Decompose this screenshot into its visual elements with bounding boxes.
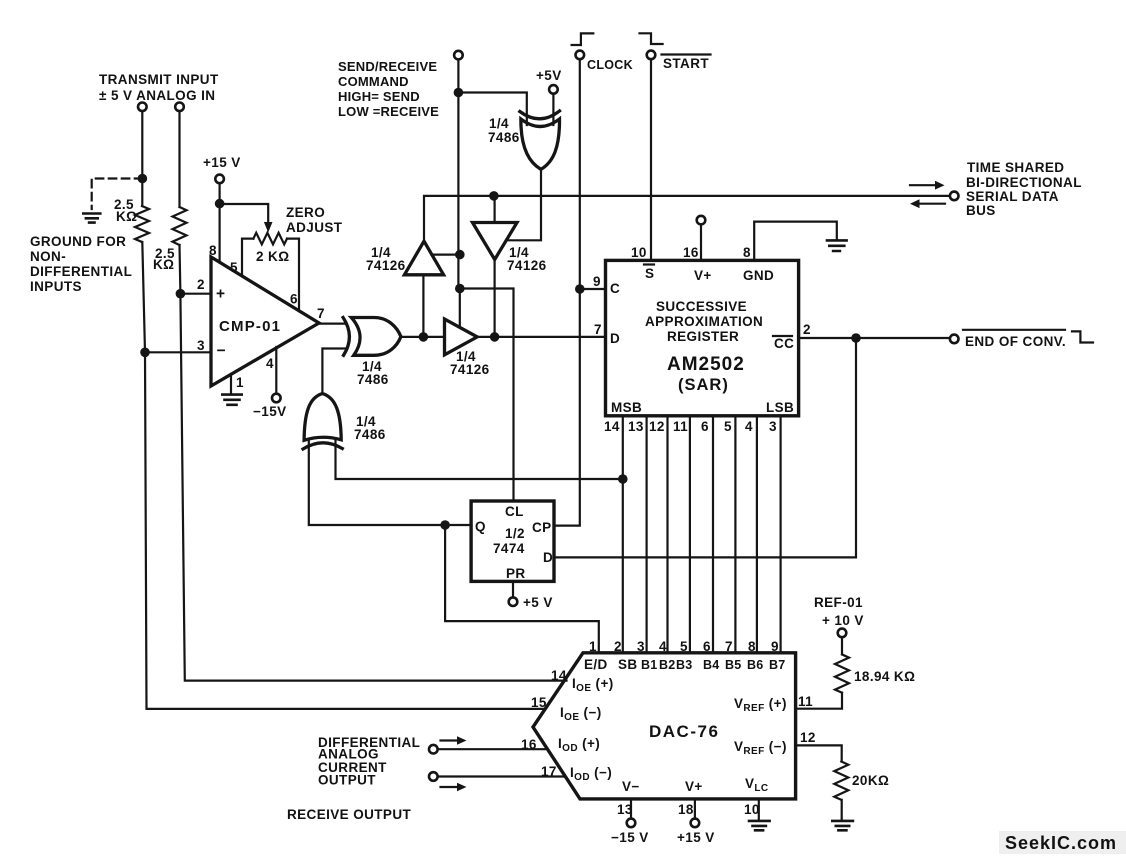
svg-text:GROUND FOR: GROUND FOR — [30, 234, 126, 249]
svg-text:16: 16 — [521, 737, 537, 752]
svg-text:6: 6 — [701, 419, 709, 434]
svg-text:14: 14 — [604, 419, 620, 434]
svg-text:12: 12 — [649, 419, 665, 434]
svg-text:OUTPUT: OUTPUT — [318, 773, 376, 788]
svg-text:−: − — [217, 343, 226, 360]
svg-text:B4: B4 — [703, 658, 719, 672]
svg-text:REF-01: REF-01 — [814, 595, 863, 610]
svg-text:5: 5 — [724, 419, 732, 434]
svg-text:SeekIC.com: SeekIC.com — [1005, 833, 1117, 853]
svg-text:C: C — [610, 281, 620, 296]
svg-text:+5 V: +5 V — [523, 595, 553, 610]
svg-text:7: 7 — [317, 306, 325, 321]
svg-text:18.94 KΩ: 18.94 KΩ — [854, 669, 915, 684]
svg-text:+15 V: +15 V — [203, 155, 241, 170]
svg-text:7486: 7486 — [354, 427, 386, 442]
svg-text:S: S — [645, 266, 654, 281]
svg-text:7486: 7486 — [357, 372, 389, 387]
svg-text:ZERO: ZERO — [286, 205, 325, 220]
svg-text:−15 V: −15 V — [611, 830, 649, 845]
svg-text:−15V: −15V — [253, 404, 287, 419]
svg-text:+: + — [216, 286, 225, 303]
svg-text:SB: SB — [618, 657, 638, 672]
svg-text:B3: B3 — [676, 658, 692, 672]
svg-text:4: 4 — [266, 356, 274, 371]
svg-text:D: D — [543, 550, 553, 565]
svg-text:DIFFERENTIAL: DIFFERENTIAL — [30, 264, 132, 279]
svg-text:BI-DIRECTIONAL: BI-DIRECTIONAL — [966, 175, 1082, 190]
svg-text:13: 13 — [628, 419, 644, 434]
svg-text:NON-: NON- — [30, 249, 66, 264]
svg-text:7474: 7474 — [493, 541, 525, 556]
svg-text:+ 10 V: + 10 V — [822, 613, 864, 628]
svg-text:7: 7 — [594, 322, 602, 337]
svg-text:20KΩ: 20KΩ — [852, 773, 889, 788]
svg-text:2: 2 — [614, 639, 622, 654]
svg-text:B2: B2 — [659, 658, 675, 672]
svg-text:(SAR): (SAR) — [678, 376, 729, 394]
svg-text:16: 16 — [683, 245, 699, 260]
svg-text:9: 9 — [771, 639, 779, 654]
svg-text:TRANSMIT INPUT: TRANSMIT INPUT — [99, 72, 219, 87]
svg-text:GND: GND — [743, 268, 774, 283]
svg-text:18: 18 — [678, 802, 694, 817]
svg-text:ADJUST: ADJUST — [286, 220, 343, 235]
svg-text:DAC-76: DAC-76 — [649, 722, 719, 741]
svg-text:1: 1 — [236, 375, 244, 390]
svg-text:D: D — [610, 331, 620, 346]
svg-text:17: 17 — [541, 764, 557, 779]
svg-text:B5: B5 — [725, 658, 741, 672]
svg-text:12: 12 — [800, 730, 816, 745]
svg-text:CL: CL — [505, 504, 524, 519]
svg-text:LSB: LSB — [766, 400, 794, 415]
svg-text:AM2502: AM2502 — [667, 354, 745, 375]
svg-text:TIME SHARED: TIME SHARED — [967, 160, 1064, 175]
svg-text:Q: Q — [475, 519, 486, 534]
svg-text:E/D: E/D — [584, 657, 608, 672]
svg-text:4: 4 — [659, 639, 667, 654]
svg-text:+5V: +5V — [536, 68, 562, 83]
svg-text:REGISTER: REGISTER — [667, 329, 739, 344]
svg-text:3: 3 — [637, 639, 645, 654]
svg-text:LOW =RECEIVE: LOW =RECEIVE — [338, 104, 439, 119]
svg-text:8: 8 — [209, 243, 217, 258]
svg-text:KΩ: KΩ — [116, 209, 137, 224]
svg-text:APPROXIMATION: APPROXIMATION — [645, 314, 763, 329]
svg-text:CLOCK: CLOCK — [587, 58, 633, 72]
svg-text:1/2: 1/2 — [505, 526, 525, 541]
svg-text:5: 5 — [680, 639, 688, 654]
svg-text:4: 4 — [745, 419, 753, 434]
svg-text:9: 9 — [593, 274, 601, 289]
svg-text:INPUTS: INPUTS — [30, 279, 82, 294]
svg-text:PR: PR — [506, 566, 526, 581]
svg-text:BUS: BUS — [966, 203, 996, 218]
svg-text:+15 V: +15 V — [677, 830, 715, 845]
svg-text:CP: CP — [532, 520, 552, 535]
svg-text:15: 15 — [531, 695, 547, 710]
svg-text:CC: CC — [774, 336, 794, 351]
svg-text:RECEIVE OUTPUT: RECEIVE OUTPUT — [287, 807, 411, 822]
svg-text:SEND/RECEIVE: SEND/RECEIVE — [338, 59, 437, 74]
svg-text:KΩ: KΩ — [153, 257, 174, 272]
svg-text:5: 5 — [230, 260, 238, 275]
svg-text:2 KΩ: 2 KΩ — [256, 249, 289, 264]
svg-text:V−: V− — [622, 779, 640, 794]
svg-text:74126: 74126 — [507, 258, 547, 273]
svg-text:10: 10 — [744, 802, 760, 817]
svg-text:END OF CONV.: END OF CONV. — [965, 334, 1066, 349]
svg-text:SUCCESSIVE: SUCCESSIVE — [656, 299, 747, 314]
svg-text:V+: V+ — [685, 779, 703, 794]
svg-text:HIGH= SEND: HIGH= SEND — [338, 89, 420, 104]
svg-text:7486: 7486 — [488, 130, 520, 145]
svg-text:START: START — [663, 56, 709, 71]
svg-text:1: 1 — [589, 639, 597, 654]
svg-text:74126: 74126 — [450, 362, 490, 377]
svg-text:74126: 74126 — [366, 258, 406, 273]
svg-text:2: 2 — [197, 277, 205, 292]
svg-text:14: 14 — [551, 668, 567, 683]
svg-text:10: 10 — [631, 245, 647, 260]
svg-text:MSB: MSB — [611, 400, 642, 415]
svg-text:1/4: 1/4 — [489, 116, 509, 131]
svg-text:3: 3 — [197, 338, 205, 353]
svg-text:SERIAL DATA: SERIAL DATA — [966, 189, 1059, 204]
svg-text:13: 13 — [617, 802, 633, 817]
svg-text:6: 6 — [703, 639, 711, 654]
svg-text:CMP-01: CMP-01 — [219, 318, 281, 335]
svg-text:11: 11 — [673, 419, 688, 434]
svg-text:6: 6 — [290, 292, 298, 307]
svg-text:8: 8 — [748, 639, 756, 654]
svg-text:COMMAND: COMMAND — [338, 74, 409, 89]
svg-text:2: 2 — [803, 322, 811, 337]
svg-text:V+: V+ — [694, 268, 712, 283]
svg-text:B1: B1 — [641, 658, 657, 672]
svg-text:B6: B6 — [747, 658, 763, 672]
svg-text:11: 11 — [798, 694, 813, 709]
svg-text:8: 8 — [743, 245, 751, 260]
svg-text:7: 7 — [725, 639, 733, 654]
svg-text:3: 3 — [769, 419, 777, 434]
svg-text:B7: B7 — [769, 658, 785, 672]
svg-text:± 5 V ANALOG IN: ± 5 V ANALOG IN — [99, 88, 215, 103]
